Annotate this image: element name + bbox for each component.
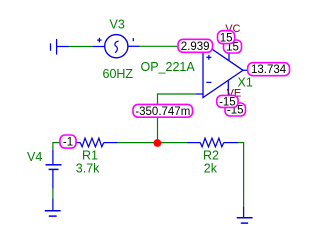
svg-text:2k: 2k bbox=[204, 162, 218, 176]
svg-text:3.7k: 3.7k bbox=[76, 162, 100, 176]
svg-text:60HZ: 60HZ bbox=[103, 67, 134, 81]
svg-text:-1: -1 bbox=[63, 137, 73, 149]
svg-text:-350.747m: -350.747m bbox=[135, 106, 190, 118]
svg-text:-15: -15 bbox=[219, 97, 236, 109]
svg-text:V3: V3 bbox=[110, 18, 125, 32]
svg-text:OP_221A: OP_221A bbox=[141, 60, 196, 74]
svg-text:2.939: 2.939 bbox=[181, 41, 210, 53]
svg-text:R2: R2 bbox=[203, 149, 219, 163]
svg-text:R1: R1 bbox=[82, 149, 98, 163]
svg-text:15: 15 bbox=[220, 32, 233, 44]
svg-text:V4: V4 bbox=[27, 150, 42, 164]
svg-text:13.734: 13.734 bbox=[251, 64, 287, 76]
svg-text:X1: X1 bbox=[238, 76, 253, 90]
